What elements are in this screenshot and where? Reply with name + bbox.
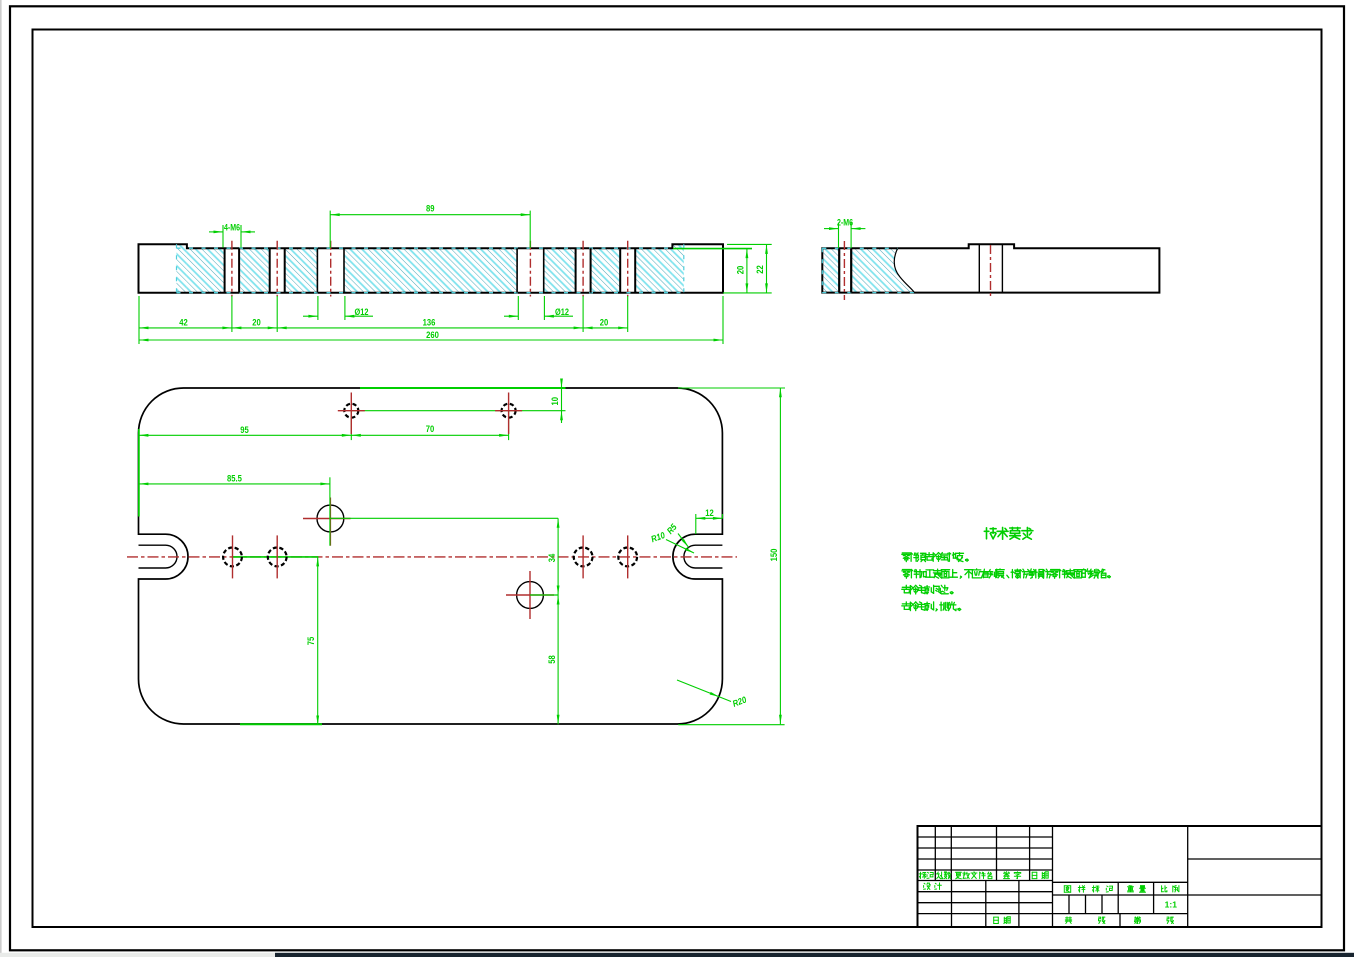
svg-text:10: 10 [549,397,560,406]
section view hole red centerlines [232,241,628,297]
svg-text:85.5: 85.5 [227,473,242,484]
side view slot lines [978,244,980,292]
dimension 85.5 [139,483,330,485]
dimension row 42 / 20 / 136 / 20 [139,327,628,329]
title block label 比例 [1162,886,1167,892]
section hatch boundary cyan dashes right edge [683,244,685,292]
svg-text:150: 150 [768,548,779,561]
svg-text:34: 34 [546,553,557,562]
svg-text:260: 260 [426,329,439,340]
svg-text:42: 42 [179,317,188,328]
svg-text:1:1: 1:1 [1165,900,1178,910]
technical requirements title [984,528,996,539]
dimension 12 (right slot) [696,517,723,519]
side section view outline [822,244,1159,292]
title block label 处数 [936,872,943,879]
dimension 58 [557,595,559,724]
green line joining top holes [351,410,565,412]
title block label 日期 [1032,872,1037,878]
plan view right slot inner step [684,545,723,568]
svg-text:58: 58 [546,655,557,664]
plan view centre M6 threaded holes (dashed circles) [223,548,242,567]
green overlay on bottom edge (75 extension) [240,723,322,725]
side view M6 red centerline [843,241,845,300]
title block label 日期 (bottom) [994,917,999,923]
svg-text:20: 20 [735,265,746,274]
svg-text:22: 22 [754,265,765,274]
side view slot red centerline [990,245,992,296]
side section view hatched area [822,248,840,292]
dimension 10 (top right) [678,387,785,389]
title block label 第 张 [1135,917,1141,924]
svg-text:136: 136 [423,317,436,328]
dimension 75 [317,557,319,725]
side view M6 hole edges [838,248,840,292]
plan view plate outline with slots [139,388,723,724]
tech req line 2 [902,570,911,579]
svg-text:89: 89 [426,203,435,214]
green line from lower big hole to 58-dim [530,594,558,596]
green line from upper big hole to 34-dim [330,517,558,519]
radius label R10 with leader [666,540,694,554]
svg-text:12: 12 [705,507,714,518]
tech req line 4 [902,602,911,610]
section hatch boundary cyan dashes top edge [177,247,684,249]
radius label R20 with leader [677,680,731,702]
title block label 图样标记 [1064,886,1070,892]
title block outer box [918,826,1322,927]
title block label 更改文件名 [955,872,961,879]
extension lines below section view [139,296,723,344]
dimension 260 [139,339,723,341]
title block label 重量 [1128,886,1134,892]
section hatch boundary cyan dashes left edge [176,244,178,292]
section view hole edge lines [225,248,636,293]
title block label 标记 [919,872,926,878]
dimension 34 [557,518,559,595]
bottom taskbar band dark part [275,953,1354,957]
left page edge strip [0,0,2,957]
dimension 22 thickness [766,244,768,293]
dimension 95 and 70 [139,434,509,436]
tech req line 1 [902,553,911,562]
plan view main red centerline [127,556,737,558]
side view wavy break line [894,248,914,292]
plan view hole red crosshairs [233,393,628,579]
svg-text:20: 20 [600,317,609,328]
bottom taskbar band light part [0,953,275,957]
top section view outline [139,244,724,292]
radius label R5 with leader [678,534,689,548]
title block label 设计 [924,883,931,889]
svg-text:75: 75 [306,636,317,645]
dimension 4-M6 lines and arrows [209,231,223,233]
dimension 150 [678,724,784,726]
svg-text:4-M6: 4-M6 [224,223,241,233]
title block grid lines [918,826,1322,927]
plan view top M6 threaded holes (dashed circles) [344,404,358,418]
plan view left slot inner step [139,545,178,568]
svg-text:20: 20 [252,317,261,328]
svg-text:95: 95 [240,424,249,435]
title block label 签字 [1004,872,1010,879]
plan view Ø12 hole upper [317,505,344,532]
side view hatch boundary cyan dashes [822,247,897,249]
svg-text:70: 70 [426,423,435,434]
plan view Ø12 hole lower [517,582,544,609]
top section view: hatched cut areas [177,244,684,292]
title block label 共 张 [1065,917,1071,924]
tech req line 3 [902,585,911,593]
section hatch boundary cyan dashes bottom edge [177,292,684,294]
green segment joining left centre holes [233,556,319,558]
dimension 20 thickness [673,248,752,250]
